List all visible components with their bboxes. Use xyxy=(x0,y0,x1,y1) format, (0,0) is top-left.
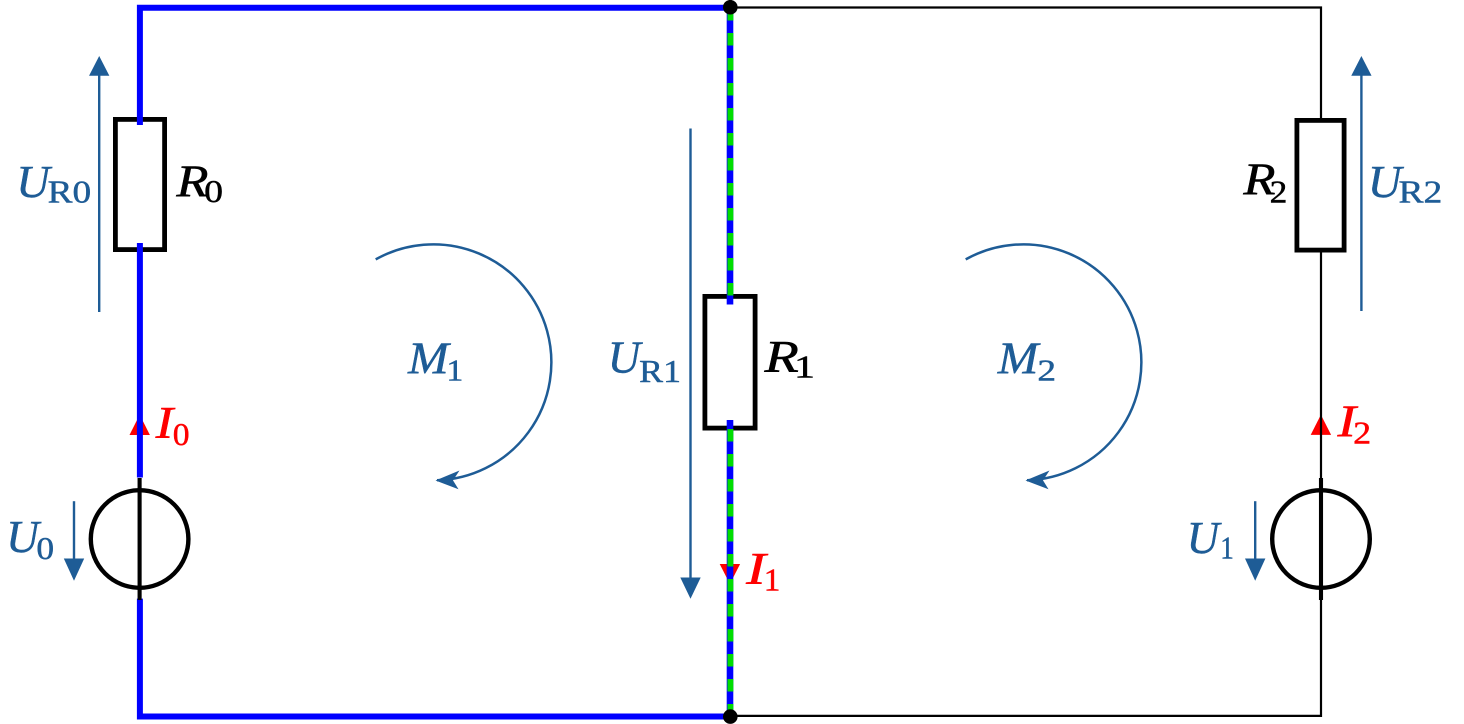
svg-text:U: U xyxy=(1187,513,1222,563)
voltage arrow U0 (down) xyxy=(64,501,84,581)
label R0 xyxy=(175,157,223,209)
svg-text:2: 2 xyxy=(1270,174,1288,210)
wire middle upper green dashes xyxy=(727,8,733,305)
resistor R2 xyxy=(1297,120,1344,250)
svg-text:M: M xyxy=(997,333,1041,383)
label U1 xyxy=(1187,513,1234,566)
label U_R0 xyxy=(16,157,91,210)
svg-text:R1: R1 xyxy=(639,353,681,389)
svg-text:1: 1 xyxy=(446,352,463,387)
node bottom xyxy=(723,709,738,724)
resistor R0 xyxy=(115,119,164,249)
label I1 xyxy=(745,544,781,598)
svg-text:R2: R2 xyxy=(1399,174,1443,210)
label U_R2 xyxy=(1368,157,1443,210)
svg-text:0: 0 xyxy=(36,530,54,566)
label I0 xyxy=(154,398,189,452)
label R2 xyxy=(1242,155,1287,210)
label I2 xyxy=(1336,397,1371,451)
svg-text:2: 2 xyxy=(1037,352,1056,387)
svg-text:0: 0 xyxy=(173,416,190,452)
label R1 xyxy=(763,332,815,385)
voltage arrow U_R1 (down) xyxy=(680,129,700,599)
label U0 xyxy=(6,512,54,566)
wire middle upper (blue base of dashed) xyxy=(727,8,734,305)
wire left bottom + bottom (blue) xyxy=(140,599,730,717)
label M1 xyxy=(407,333,463,387)
wire right + bottom right (black thin) xyxy=(730,251,1321,716)
svg-text:1: 1 xyxy=(1220,530,1234,566)
wire top+left (blue thick) xyxy=(140,8,730,125)
svg-text:1: 1 xyxy=(794,348,815,384)
label M2 xyxy=(997,333,1056,387)
wire middle lower (blue base of dashed) xyxy=(727,420,734,717)
node top xyxy=(723,0,738,15)
voltage arrow U1 (down) xyxy=(1245,501,1265,581)
wire left middle (blue) xyxy=(137,243,143,478)
voltage arrow U_R2 (up) xyxy=(1351,56,1371,311)
svg-text:2: 2 xyxy=(1353,414,1371,450)
svg-text:U: U xyxy=(608,333,643,383)
voltage source U1 xyxy=(1272,478,1370,600)
current arrow I1 (red, down) xyxy=(720,564,740,584)
mesh arrow M1 (clockwise arc) xyxy=(376,244,552,489)
resistor R1 xyxy=(705,296,755,428)
wire top right (black thin) xyxy=(730,8,1321,121)
current arrow I0 (red, up) xyxy=(130,415,150,435)
svg-text:0: 0 xyxy=(204,173,223,209)
wire middle lower green dashes xyxy=(727,420,733,717)
voltage source U0 xyxy=(91,478,189,600)
label U_R1 xyxy=(608,333,681,389)
svg-text:M: M xyxy=(407,333,451,383)
mesh arrow M2 (clockwise arc) xyxy=(966,244,1142,489)
svg-text:1: 1 xyxy=(764,562,781,598)
svg-text:R0: R0 xyxy=(48,174,92,210)
current arrow I2 (red, up) xyxy=(1311,415,1331,435)
voltage arrow U_R0 (up) xyxy=(89,56,109,312)
